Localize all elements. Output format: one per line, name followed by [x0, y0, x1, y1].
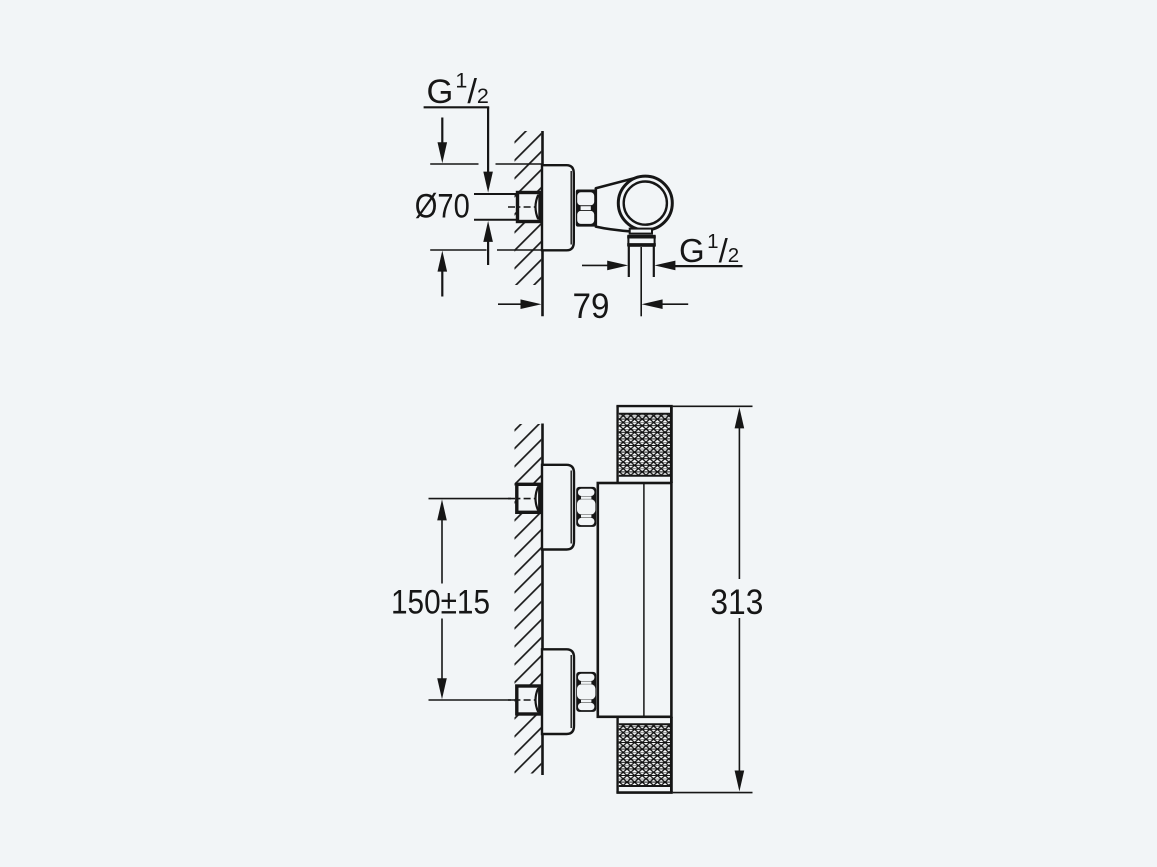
- svg-text:79: 79: [573, 287, 610, 326]
- svg-text:150±15: 150±15: [391, 584, 490, 622]
- svg-text:Ø70: Ø70: [415, 187, 470, 225]
- svg-text:313: 313: [710, 583, 763, 622]
